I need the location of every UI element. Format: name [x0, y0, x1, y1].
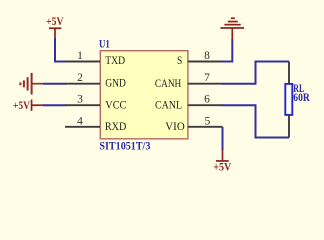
resistor RL bottom pin [288, 115, 290, 138]
svg-text:CANL: CANL [155, 98, 182, 112]
pin 8 line [188, 61, 223, 63]
pin 1 line [66, 61, 100, 63]
wire +5V to pin1 TXD [55, 38, 67, 62]
svg-text:+5V: +5V [213, 160, 231, 174]
svg-text:+5V: +5V [13, 98, 30, 112]
pin 6 line [188, 104, 223, 106]
svg-text:GND: GND [105, 76, 126, 90]
svg-text:RXD: RXD [105, 119, 127, 133]
svg-text:6: 6 [204, 94, 210, 106]
wire pin8 to ground [222, 39, 232, 62]
svg-text:TXD: TXD [105, 53, 125, 67]
svg-text:S: S [177, 53, 182, 67]
resistor RL body [285, 84, 292, 115]
svg-text:VCC: VCC [105, 97, 126, 111]
resistor RL top pin [288, 62, 290, 85]
pin 5 line [188, 126, 223, 128]
wire ground to pin2 GND [43, 83, 67, 85]
svg-text:U1: U1 [99, 37, 110, 51]
+5V power symbol (left, pin3) [13, 98, 43, 112]
ground (top right) [220, 17, 244, 39]
svg-text:2: 2 [77, 72, 83, 84]
+5V power symbol (top left) [46, 14, 64, 39]
svg-text:1: 1 [77, 50, 83, 62]
svg-text:VIO: VIO [165, 119, 185, 133]
pin 4 line [65, 126, 100, 128]
svg-text:5: 5 [205, 115, 211, 127]
+5V power symbol (bottom, pin5) [213, 150, 231, 174]
svg-text:+5V: +5V [46, 14, 64, 28]
svg-text:4: 4 [77, 115, 83, 127]
IC U1 body [100, 51, 188, 139]
svg-text:60R: 60R [293, 90, 310, 104]
ground (left, pin2) [19, 73, 43, 95]
svg-text:CANH: CANH [155, 76, 182, 90]
pin 7 line [188, 83, 223, 85]
svg-text:7: 7 [204, 72, 210, 84]
svg-text:3: 3 [77, 94, 83, 106]
svg-text:8: 8 [204, 50, 210, 62]
wire pin6 CANL to resistor bottom [222, 105, 289, 137]
wire +5V to pin3 VCC [43, 104, 67, 106]
wire pin5 VIO down to +5V [222, 127, 224, 150]
sheet background [0, 0, 324, 192]
svg-text:SIT1051T/3: SIT1051T/3 [99, 138, 150, 152]
pin 2 line [66, 83, 100, 85]
wire pin7 CANH to resistor top [222, 62, 289, 84]
pin 3 line [66, 104, 100, 106]
